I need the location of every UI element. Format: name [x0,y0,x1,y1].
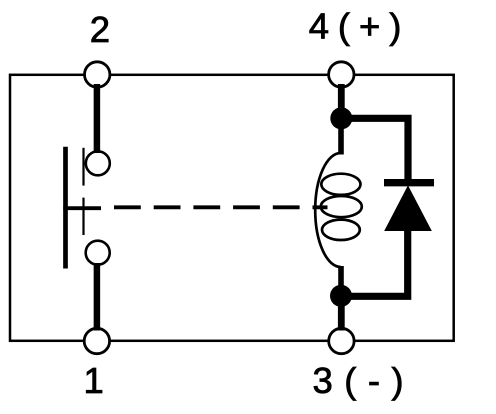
wire top node to diode branch [341,118,408,182]
svg-text:4 ( + ): 4 ( + ) [309,6,401,47]
coil loop 2 [321,196,362,217]
svg-text:1: 1 [83,360,103,401]
relay body outline [10,75,454,341]
pin 3 terminal circle [329,328,354,353]
switch blade upper segment [82,148,84,186]
pin 4 terminal circle [329,62,354,87]
svg-text:2: 2 [90,9,110,50]
node top junction dot [330,107,352,129]
coil loop 1 [321,174,360,195]
coil bottom stub [338,266,344,294]
wire diode to bottom node [341,229,408,296]
mechanical link dashed line [114,205,328,209]
wire bottom node to pin3 [338,296,345,331]
wire pin2 to upper contact [94,84,101,153]
switch actuator horizontal line [63,206,101,210]
switch contact circle upper [86,151,110,175]
coil loop 3 [322,220,360,240]
pin 1 terminal circle [84,328,109,353]
switch armature bar [63,147,68,269]
wire pin4 to top node [338,84,345,120]
svg-text:3 ( - ): 3 ( - ) [313,360,405,401]
wire lower contact to pin1 [94,263,101,331]
coil top stub [338,122,344,155]
diode D1 cathode bar [384,179,434,186]
diode D1 triangle [385,186,431,230]
switch contact circle lower [86,241,110,265]
node bottom junction dot [330,285,352,307]
pin 2 terminal circle [85,62,110,87]
switch blade lower segment [82,198,84,235]
coil left arc [315,153,340,267]
